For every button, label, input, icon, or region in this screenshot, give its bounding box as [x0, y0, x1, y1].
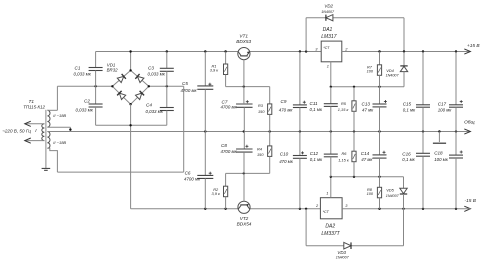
svg-text:4700 мк: 4700 мк: [184, 177, 201, 182]
svg-text:R5: R5: [341, 101, 347, 106]
svg-text:0,1 мк: 0,1 мк: [310, 107, 323, 112]
svg-text:C13: C13: [362, 101, 371, 106]
capacitor C14: [361, 132, 387, 177]
svg-text:47 мк: 47 мк: [361, 157, 373, 162]
resistor R3: [258, 87, 272, 132]
input terminal arrow 1: [25, 121, 45, 126]
resistor R2: [212, 173, 228, 208]
label mains input: [2, 128, 37, 134]
svg-text:C1: C1: [75, 65, 81, 70]
svg-text:BDX54: BDX54: [237, 221, 252, 226]
svg-text:Т1: Т1: [29, 99, 35, 104]
svg-text:0,1 мк: 0,1 мк: [402, 157, 415, 162]
resistor R4: [257, 132, 272, 174]
diode VD2: [306, 4, 404, 52]
svg-text:C9: C9: [281, 99, 287, 104]
junction C1-C2 tap: [94, 85, 96, 87]
svg-text:470 мк: 470 мк: [279, 159, 294, 164]
svg-text:C8: C8: [221, 143, 227, 148]
capacitor C4: [146, 86, 174, 125]
svg-text:47 мк: 47 мк: [362, 107, 374, 112]
svg-text:II ~18В: II ~18В: [53, 140, 66, 145]
svg-text:4700 мк: 4700 мк: [181, 88, 198, 93]
junction on common rail: [204, 130, 457, 132]
capacitor C7: [221, 87, 253, 132]
svg-text:C6: C6: [185, 170, 191, 175]
diode VD5: [386, 177, 407, 209]
terminal +15V: [464, 43, 480, 54]
wire VT1 base net: [226, 86, 270, 88]
capacitor C8: [221, 132, 253, 174]
junction VT2 base: [243, 172, 245, 174]
svg-text:470 мк: 470 мк: [279, 108, 294, 113]
ground (common rail): [433, 132, 446, 144]
ground (transformer shield): [42, 168, 51, 170]
input terminal arrow 2: [25, 138, 45, 143]
svg-text:100 мк: 100 мк: [434, 157, 449, 162]
svg-text:BR32: BR32: [107, 68, 119, 73]
junction on + rail 2: [299, 50, 308, 52]
capacitor C13: [362, 87, 387, 132]
svg-text:0,033 мк: 0,033 мк: [74, 71, 92, 76]
svg-text:C11: C11: [310, 101, 319, 106]
wire - raw vertical: [130, 104, 132, 209]
terminal -15V: [464, 198, 476, 211]
svg-text:R6: R6: [342, 151, 348, 156]
bridge rectifier VD1 frame: [112, 70, 148, 104]
svg-text:C12: C12: [310, 151, 319, 156]
svg-text:1N4007: 1N4007: [336, 256, 350, 260]
junction adjust net: [330, 86, 381, 88]
svg-text:C14: C14: [361, 151, 370, 156]
bridge diode lower-left: [117, 91, 126, 100]
svg-text:C17: C17: [438, 102, 447, 107]
pin 1 label DA2: [326, 191, 328, 196]
transformer T1: [42, 110, 50, 168]
capacitor C12: [310, 132, 338, 177]
svg-text:1: 1: [327, 63, 329, 68]
label T1: [23, 99, 45, 109]
resistor R6: [338, 132, 356, 177]
svg-text:VT1: VT1: [239, 34, 248, 39]
svg-text:0,1 мк: 0,1 мк: [310, 157, 323, 162]
junction on - rail: [204, 208, 227, 210]
wire center tap: [47, 127, 70, 131]
junction + output rail: [378, 50, 457, 52]
svg-text:C2: C2: [84, 99, 90, 104]
junction C3-C4 tap: [166, 85, 168, 87]
wire - input rail: [131, 208, 238, 210]
svg-text:4700 мк: 4700 мк: [221, 105, 238, 110]
svg-text:1,15 к: 1,15 к: [338, 107, 349, 112]
capacitor C5: [181, 52, 214, 132]
capacitor C10: [279, 132, 307, 209]
wire + rail after VT1: [250, 51, 321, 53]
diode VD3: [306, 209, 403, 260]
wire DA1 adj pin: [330, 62, 332, 87]
svg-text:100: 100: [367, 69, 374, 74]
capacitor C6: [184, 132, 213, 209]
resistor R8: [367, 177, 382, 209]
svg-text:DA1: DA1: [323, 27, 333, 33]
wire common rail: [70, 131, 470, 133]
svg-text:100: 100: [367, 191, 374, 196]
svg-text:0,1 мк: 0,1 мк: [403, 107, 416, 112]
svg-text:C16: C16: [402, 151, 411, 156]
wire sec2 bottom to bridge AC2: [47, 86, 183, 172]
svg-text:C10: C10: [280, 151, 289, 156]
pin 3 label DA2: [345, 203, 348, 208]
wire + output rail: [342, 51, 471, 53]
bridge diode upper-left: [117, 74, 126, 83]
svg-text:C5: C5: [182, 81, 188, 86]
svg-text:3,9 к: 3,9 к: [210, 68, 218, 73]
svg-text:II ~18В: II ~18В: [53, 113, 66, 118]
bridge diode upper-right: [135, 74, 144, 83]
capacitor C18: [434, 132, 463, 209]
svg-text:1N4007: 1N4007: [386, 194, 400, 198]
transistor VT2: [237, 173, 252, 226]
wire snubber bottom: [96, 124, 167, 126]
transistor VT1: [236, 34, 251, 87]
svg-text:+15 В: +15 В: [467, 43, 480, 49]
wire + input rail: [96, 51, 238, 53]
op-amp U DA2 LM337T: [320, 198, 342, 238]
svg-text:0,033 мк: 0,033 мк: [76, 108, 94, 113]
wire - rail after VT2: [250, 208, 320, 210]
junction center tap: [69, 128, 71, 130]
svg-text:1N4007: 1N4007: [321, 10, 335, 14]
svg-text:1: 1: [326, 191, 328, 196]
svg-text:4700 мк: 4700 мк: [221, 149, 238, 154]
svg-text:~220 В, 50 Гц: ~220 В, 50 Гц: [2, 129, 31, 134]
svg-text:150: 150: [257, 152, 264, 157]
pin 1 label DA1: [327, 63, 329, 68]
resistor R7: [367, 52, 382, 87]
svg-text:ТП115-К12: ТП115-К12: [23, 105, 45, 110]
svg-text:VT2: VT2: [240, 216, 249, 221]
terminal common: [464, 120, 475, 134]
svg-text:VD5: VD5: [386, 187, 394, 192]
svg-text:DA2: DA2: [325, 224, 335, 230]
junction on + rail: [129, 50, 226, 52]
op-amp U DA1 LM317: [321, 27, 342, 62]
wire DA1 adjust net: [331, 86, 404, 88]
label VD1: [107, 63, 119, 73]
svg-text:R4: R4: [257, 146, 263, 151]
svg-text:Общ: Общ: [464, 120, 475, 126]
svg-text:1,15 к: 1,15 к: [338, 157, 349, 162]
capacitor C2: [76, 86, 103, 125]
label winding III: [53, 140, 66, 145]
capacitor C11: [310, 87, 338, 132]
diode VD4: [386, 52, 408, 87]
capacitor C9: [279, 52, 307, 132]
svg-text:150: 150: [258, 109, 265, 114]
svg-text:R3: R3: [258, 103, 264, 108]
wire DA2 adjust net: [331, 176, 404, 178]
wire sec1 top to bridge AC1: [47, 86, 112, 110]
svg-text:C4: C4: [146, 103, 152, 108]
junction bridge nodes: [111, 69, 150, 105]
resistor R5: [338, 87, 356, 132]
svg-text:*СТ: *СТ: [323, 210, 330, 214]
pin 3 label DA1: [315, 47, 318, 52]
capacitor C15: [403, 52, 430, 132]
svg-text:-15 В: -15 В: [465, 198, 477, 204]
svg-text:1N4007: 1N4007: [386, 73, 400, 77]
label winding II: [53, 113, 66, 118]
svg-text:LM337T: LM337T: [321, 231, 340, 237]
wire - output rail: [342, 208, 470, 210]
junction VT1 base: [243, 85, 245, 87]
capacitor C17: [438, 52, 463, 132]
svg-text:3,9 к: 3,9 к: [212, 191, 220, 196]
junction snubber-raw minus: [129, 124, 131, 126]
svg-text:VD2: VD2: [324, 4, 333, 9]
svg-text:LM317: LM317: [321, 34, 337, 40]
junction on - rail 2: [299, 208, 308, 210]
wire VT2 base net: [226, 172, 270, 174]
capacitor C16: [402, 132, 430, 209]
wire DA2 adj pin: [330, 177, 332, 198]
svg-text:*СТ: *СТ: [323, 46, 330, 50]
junction - output rail: [378, 208, 457, 210]
bridge top lead: [130, 52, 132, 71]
junction adjust2 net: [330, 176, 381, 178]
svg-text:C3: C3: [148, 66, 154, 71]
capacitor C1: [74, 52, 103, 87]
svg-text:C15: C15: [403, 102, 412, 107]
svg-text:VD3: VD3: [337, 250, 346, 255]
svg-text:0,033 мк: 0,033 мк: [146, 109, 164, 114]
svg-text:100 мк: 100 мк: [438, 107, 453, 112]
svg-text:BDX53: BDX53: [236, 39, 251, 44]
svg-text:0,033 мк: 0,033 мк: [148, 71, 166, 76]
svg-text:C18: C18: [434, 151, 443, 156]
resistor R1: [210, 52, 228, 87]
pin 2 label DA1: [344, 47, 348, 52]
bridge diode lower-right: [136, 91, 145, 100]
pin 2 label DA2: [315, 203, 319, 208]
capacitor C3: [148, 52, 174, 87]
